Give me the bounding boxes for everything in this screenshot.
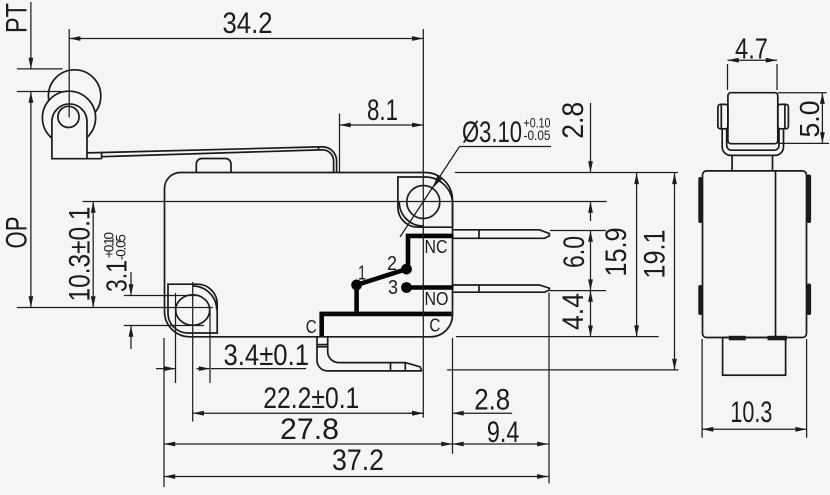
top hole counterbore arc — [399, 202, 423, 226]
side fork inner — [727, 129, 779, 150]
dimension 3.4 right arrow — [197, 368, 211, 370]
side clamp tab top-right — [807, 175, 811, 224]
svg-text:8.1: 8.1 — [367, 94, 398, 127]
PT-OP dimension line — [30, 92, 32, 308]
dimension 4.7 line — [728, 59, 778, 61]
dimension 3.1 upper tick — [124, 295, 200, 297]
hole leader line — [400, 147, 460, 238]
contact dot 1 — [351, 280, 362, 291]
svg-text:2.8: 2.8 — [557, 102, 590, 139]
dimension 22.2 line — [193, 412, 424, 414]
dimension 3.4 left extension — [175, 293, 177, 383]
svg-text:4.7: 4.7 — [735, 34, 768, 66]
svg-text:NC: NC — [425, 236, 448, 257]
leader underline — [460, 146, 552, 148]
dimension 3.4 right extension — [209, 308, 211, 383]
blade tip extension line — [548, 293, 550, 484]
dimension 8.1 line — [340, 124, 424, 126]
lever bend tick — [318, 147, 320, 150]
dimension 15.9 line — [636, 173, 638, 337]
svg-text:NO: NO — [425, 288, 449, 309]
side clamp tab bottom-left — [698, 285, 702, 315]
dimension 3.1 upper arrow — [130, 272, 132, 296]
C terminal tip ticks — [391, 363, 406, 371]
dimension 2.8 bottom left arrow — [408, 412, 423, 414]
side lever stem — [732, 155, 772, 171]
svg-text:9.4: 9.4 — [487, 416, 520, 449]
top mounting hole boss — [398, 177, 453, 227]
dimension 10.3 side line — [702, 428, 807, 430]
NO terminal blade — [453, 285, 550, 292]
contact dot 3 — [401, 282, 412, 293]
bottom mounting hole boss — [168, 284, 217, 333]
lever arm bent end inner — [320, 150, 334, 172]
dimension 34.2 line — [69, 38, 423, 40]
dimension 2.8 bottom underline arrow — [453, 412, 513, 414]
side body parting line — [775, 171, 777, 338]
side axle left tab — [718, 104, 728, 128]
svg-text:3.4±0.1: 3.4±0.1 — [224, 339, 310, 372]
NO blade extension line — [550, 290, 606, 292]
dimension 5.0 line — [821, 93, 823, 144]
contact dot 2 — [401, 264, 412, 275]
dimension 4.4 line — [590, 291, 592, 337]
svg-text:15.9: 15.9 — [600, 228, 633, 277]
C terminal tapered tip — [391, 363, 422, 371]
dimension 10.3 left line — [92, 202, 94, 308]
svg-text:C: C — [306, 316, 317, 337]
side clamp tab top-left — [698, 177, 702, 223]
svg-text:3.1+0.10-0.05: 3.1+0.10-0.05 — [102, 232, 134, 292]
bottom hole counterbore arc — [193, 286, 217, 310]
roller centerline — [68, 29, 70, 118]
OP reference line — [17, 307, 213, 309]
svg-text:3: 3 — [388, 277, 398, 299]
NC terminal blade — [453, 230, 550, 239]
body left extension line — [163, 338, 165, 487]
body bottom extension line — [456, 336, 659, 338]
dimension 37.2 line — [164, 476, 548, 478]
side bottom terminal — [723, 338, 786, 376]
svg-text:10.3±0.1: 10.3±0.1 — [64, 207, 97, 302]
lever arm top edge — [87, 147, 319, 153]
C terminal bent blade outer — [317, 337, 422, 371]
switch body outline — [165, 173, 453, 337]
leader arrowhead — [432, 176, 442, 188]
NC contact lead — [408, 236, 454, 267]
dimension 27.8 line — [164, 443, 453, 445]
movable contact arm — [357, 269, 407, 285]
bottom mounting hole — [176, 295, 210, 325]
side dimension 4.7 extensions — [728, 64, 778, 90]
svg-text:22.2±0.1: 22.2±0.1 — [263, 382, 359, 415]
PT dimension upper arrow — [30, 2, 32, 69]
C terminal bent blade inner — [328, 337, 391, 363]
body seam line — [83, 201, 607, 203]
svg-text:34.2: 34.2 — [223, 7, 273, 40]
side fork outer — [722, 129, 783, 156]
svg-text:2: 2 — [387, 253, 397, 275]
hole centerline vertical — [422, 29, 424, 418]
C terminal shoulder ticks — [317, 345, 328, 347]
roller (free position) circle — [48, 70, 100, 122]
side clamp tab bottom-right — [807, 284, 811, 316]
svg-text:27.8: 27.8 — [280, 413, 339, 446]
dimension 2.8 upper arrow — [590, 103, 592, 173]
C terminal bottom extension line — [447, 369, 678, 371]
svg-text:C: C — [429, 315, 440, 336]
NO blade notch tick — [478, 285, 480, 292]
svg-text:-0.05: -0.05 — [524, 128, 551, 143]
lever bracket foot step — [87, 153, 102, 159]
dimension 6.0 line — [590, 231, 592, 291]
dimension 2.8 lower arrow — [590, 202, 592, 222]
svg-text:5.0: 5.0 — [794, 101, 825, 138]
lever end extension line — [339, 114, 341, 173]
roller lever bracket — [52, 104, 87, 159]
dimension 9.4 line — [453, 443, 549, 445]
body top extension line — [455, 172, 678, 174]
side body outline — [703, 171, 807, 338]
svg-text:37.2: 37.2 — [332, 444, 384, 477]
top mounting hole — [407, 186, 440, 219]
body right extension line — [452, 338, 454, 454]
side roller — [728, 93, 778, 144]
common lead from dot 1 — [354, 282, 359, 312]
svg-text:1: 1 — [358, 263, 366, 285]
roller axle hole — [58, 106, 79, 127]
svg-text:10.3: 10.3 — [730, 396, 772, 429]
svg-text:OP: OP — [1, 217, 34, 249]
svg-text:6.0: 6.0 — [558, 236, 591, 268]
side terminal stub right — [768, 336, 787, 341]
lever arm bent end outer — [319, 147, 337, 172]
NC blade notch tick — [478, 230, 480, 239]
dimension 3.4 left arrow — [156, 368, 176, 370]
PT tick pressed position — [17, 91, 62, 93]
NC blade extension line — [550, 230, 606, 232]
NO contact lead — [407, 285, 454, 290]
common bus bar — [322, 314, 452, 336]
dimension 3.4 underline — [211, 368, 306, 370]
svg-text:PT: PT — [1, 3, 34, 33]
svg-text:4.4: 4.4 — [557, 293, 590, 330]
bottom hole centerline vertical — [192, 282, 194, 422]
svg-text:Ø3.10: Ø3.10 — [462, 116, 522, 149]
roller (pressed position) circle — [42, 91, 95, 144]
svg-text:2.8: 2.8 — [474, 384, 510, 417]
PT tick free position — [17, 68, 63, 70]
lever arm bottom edge — [102, 150, 320, 157]
side dimension 10.3 extensions — [702, 339, 807, 438]
dimension 19.1 line — [674, 173, 676, 370]
side axle right tab — [778, 104, 789, 128]
dimension 3.1 lower tick — [124, 325, 204, 327]
svg-text:19.1: 19.1 — [639, 230, 672, 279]
plunger button — [196, 159, 231, 173]
side dimension 5.0 extensions — [778, 93, 829, 144]
dimension 3.1 lower arrow — [130, 326, 132, 350]
side terminal stub left — [729, 336, 746, 341]
